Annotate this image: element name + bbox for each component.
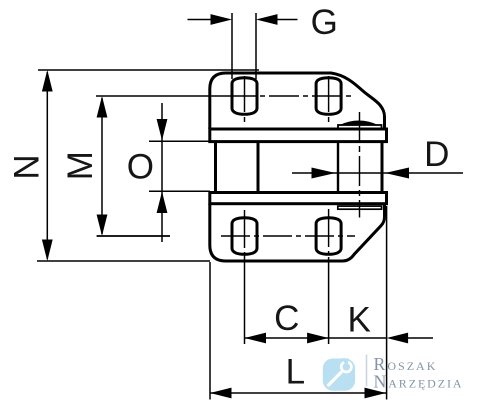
watermark separator bbox=[366, 355, 368, 387]
C arrow right bbox=[307, 333, 329, 344]
svg-text:G: G bbox=[311, 3, 338, 42]
C/K extension middle bbox=[328, 257, 330, 344]
bottom flange outline bbox=[210, 204, 385, 261]
G dimension line right bbox=[276, 19, 298, 21]
centerline hole bottom-right vertical bbox=[328, 209, 330, 257]
M extension bottom bbox=[97, 235, 171, 237]
G dimension line left bbox=[188, 19, 213, 21]
N dimension line bbox=[46, 72, 48, 259]
watermark wrench icon bbox=[329, 362, 352, 385]
pin top cap rect bbox=[338, 125, 382, 129]
C arrow left bbox=[245, 333, 267, 344]
watermark logo squircle bbox=[323, 359, 355, 391]
centerline hole top-left vertical bbox=[244, 76, 246, 126]
svg-text:O: O bbox=[127, 148, 154, 187]
hole top-right bbox=[316, 78, 341, 115]
middle web right edge bbox=[257, 143, 260, 192]
M arrow bottom bbox=[97, 215, 108, 237]
M arrow top bbox=[97, 96, 108, 118]
G extension lines bbox=[231, 13, 233, 79]
centerline bottom holes horizontal bbox=[97, 235, 170, 237]
pin bottom cap bbox=[338, 206, 382, 209]
centerline hole top-right vertical bbox=[328, 76, 330, 126]
C dimension line bbox=[245, 337, 329, 339]
centerline top holes horizontal bbox=[96, 95, 226, 97]
top flange outline bbox=[210, 73, 385, 129]
O extension bottom bbox=[149, 190, 210, 192]
centerline pin vertical bbox=[359, 112, 361, 218]
N extension top bbox=[38, 69, 259, 71]
O extension top bbox=[149, 140, 210, 142]
top band plate bbox=[210, 129, 387, 142]
G arrow left bbox=[211, 14, 233, 25]
svg-text:D: D bbox=[424, 135, 449, 174]
K/L extension right bbox=[386, 206, 388, 400]
O dimension line bbox=[161, 103, 163, 242]
hole bottom-right bbox=[316, 218, 341, 255]
hole bottom-left bbox=[232, 218, 257, 255]
G arrow right bbox=[256, 14, 278, 25]
centerline hole bottom-left vertical bbox=[244, 210, 246, 257]
K dimension line bbox=[329, 337, 387, 339]
L arrow right bbox=[365, 388, 387, 399]
O arrow top bbox=[157, 119, 168, 141]
N arrow top bbox=[42, 70, 53, 92]
M dimension line bbox=[101, 98, 103, 234]
wrench notch bbox=[342, 358, 349, 367]
K arrow right bbox=[387, 333, 409, 344]
K dimension tail bbox=[406, 337, 433, 339]
svg-text:N: N bbox=[7, 154, 46, 179]
L arrow left bbox=[210, 388, 232, 399]
pin top cap dome bbox=[340, 121, 379, 126]
N arrow bottom bbox=[42, 240, 53, 262]
N extension bottom bbox=[37, 260, 210, 262]
pin right edge bbox=[381, 143, 384, 192]
bottom band plate bbox=[210, 193, 387, 204]
svg-text:C: C bbox=[274, 299, 299, 338]
D arrow left bbox=[312, 168, 336, 179]
L extension left bbox=[209, 262, 211, 400]
O arrow bottom bbox=[157, 192, 168, 214]
svg-text:M: M bbox=[61, 151, 100, 180]
middle web left edge bbox=[214, 143, 217, 192]
svg-text:K: K bbox=[348, 301, 371, 340]
D arrow right bbox=[385, 168, 409, 179]
L dimension line bbox=[210, 392, 386, 394]
hole top-left bbox=[232, 78, 257, 115]
svg-text:L: L bbox=[286, 353, 305, 392]
C extension left bbox=[244, 256, 246, 344]
pin left edge bbox=[337, 143, 339, 192]
D dimension line bbox=[292, 172, 463, 174]
